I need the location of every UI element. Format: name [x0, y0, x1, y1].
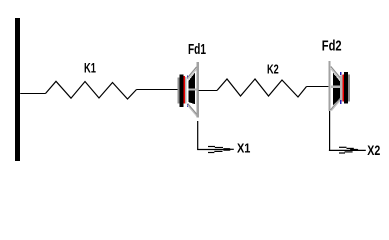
Fd1 cone upper outline diagonal [187, 67, 196, 78]
Fd1 cone interior upper black [188, 72, 195, 88]
svg-text:Fd2: Fd2 [322, 39, 342, 55]
Fd1 red stripe [184, 76, 186, 104]
Fd1 rim bar [197, 62, 199, 118]
Fd2 magnet black bar [344, 72, 348, 104]
Fd2 cone interior upper black [333, 73, 340, 86]
spring K2 [217, 79, 307, 97]
X1 lower hatch 1 [214, 150, 222, 152]
Fd1 cone lower outline outer light line [188, 105, 198, 116]
Fd2 cone upper outline inner light line [331, 69, 340, 80]
X1 upper hatch 2 [215, 147, 223, 149]
svg-text:X1: X1 [237, 142, 250, 156]
X2 lower hatch 1 [345, 151, 353, 153]
Fd1 cone center gray band [188, 89, 196, 91]
Fd2 cone center gray band [331, 85, 340, 88]
mass Fd1 (loudspeaker) [177, 62, 199, 118]
Fd1 rear gray plate [177, 78, 179, 104]
wall (fixed support) [15, 18, 20, 161]
Fd2 rear gray plate [348, 75, 350, 102]
X2 upper hatch 1 [339, 146, 347, 148]
Fd2 cone lower outline diagonal [331, 98, 341, 110]
wire K1 to Fd1 [137, 89, 179, 91]
X1 lower hatch 2 [208, 152, 214, 154]
Fd1 cone upper outline inner light line [188, 69, 197, 79]
X1 arrow tail tip [231, 148, 234, 150]
X2 axis main line [329, 149, 366, 151]
X2 lower hatch 2 [339, 152, 345, 154]
Fd2 blue tick top [340, 72, 341, 75]
Fd1 cone lower outline diagonal [188, 104, 198, 116]
Fd1 gray column [185, 77, 186, 104]
displacement axis X1 [197, 121, 234, 153]
Fd2 red stripe [343, 75, 344, 102]
Fd1 cone interior lower black [188, 90, 195, 104]
X2 arrow head [350, 149, 358, 151]
Fd1 magnet black bar [180, 75, 184, 108]
displacement axis X2 [329, 111, 366, 153]
svg-text:X2: X2 [367, 143, 380, 158]
svg-text:K1: K1 [84, 60, 96, 75]
X2 vertical drop line [329, 111, 331, 150]
svg-text:K2: K2 [267, 61, 279, 76]
Fd2 cone interior lower black [333, 88, 340, 105]
Fd1 blue tick bottom [187, 104, 188, 107]
Fd2 basket gray column [342, 75, 343, 102]
Fd2 blue tick bottom [340, 100, 341, 104]
wire K2 to Fd2 [307, 86, 329, 88]
svg-text:Fd1: Fd1 [188, 42, 206, 58]
mass Fd2 (loudspeaker, mirrored) [328, 61, 349, 111]
X1 upper hatch 1 [208, 146, 215, 148]
Fd2 rim bar [328, 61, 330, 111]
X2 upper hatch 2 [347, 147, 354, 149]
Fd2 cone upper outline diagonal [331, 67, 341, 79]
Fd2 cone apex silver edge [340, 76, 341, 101]
X1 arrow head [223, 148, 231, 151]
spring K1 [46, 81, 137, 99]
X1 axis main line [197, 149, 223, 151]
wire Fd1 to K2 [199, 90, 217, 92]
Fd1 blue tick top [187, 76, 188, 79]
X1 vertical drop line [197, 121, 199, 150]
wire wall to K1 [20, 93, 45, 95]
Fd2 cone lower outline outer light line [331, 100, 341, 111]
